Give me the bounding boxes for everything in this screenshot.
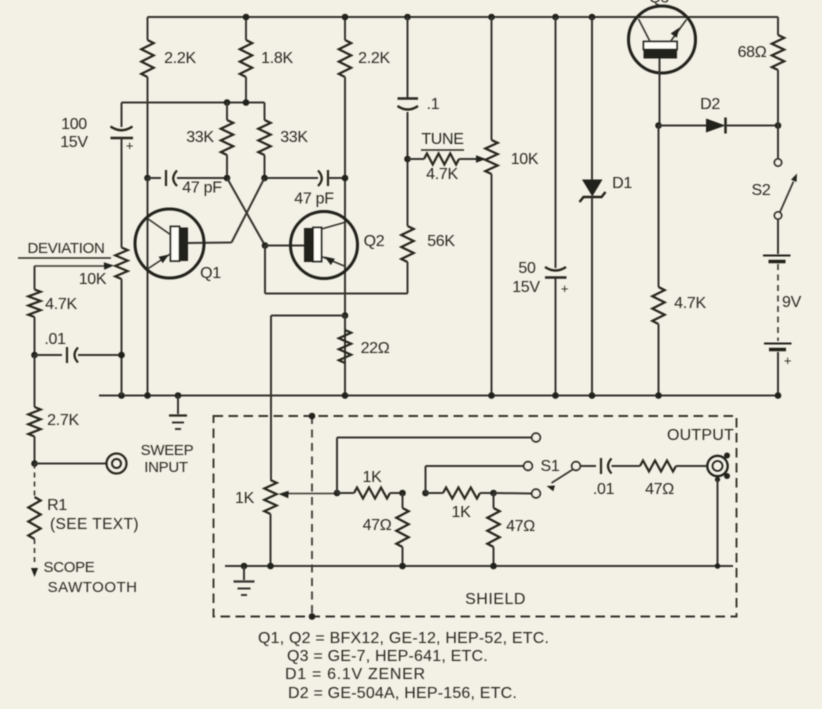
node attenuator tap B <box>399 490 406 497</box>
resistor 47Ω output <box>640 461 707 499</box>
svg-text:TUNE: TUNE <box>421 131 463 148</box>
svg-text:4.7K: 4.7K <box>674 295 706 312</box>
svg-text:.1: .1 <box>427 96 440 113</box>
resistor 22Ω <box>339 316 390 396</box>
svg-text:INPUT: INPUT <box>144 459 188 476</box>
node rail junction 10K pot <box>488 14 495 21</box>
resistor 47Ω first <box>363 493 409 566</box>
resistor 4.7K right <box>652 126 706 396</box>
svg-text:D2 = GE-504A, HEP-156, ETC.: D2 = GE-504A, HEP-156, ETC. <box>288 685 517 702</box>
node TUNE junction <box>404 156 411 163</box>
svg-text:2.2K: 2.2K <box>358 50 390 67</box>
resistor 56K <box>401 112 455 262</box>
node rail junction 1.8K <box>243 14 250 21</box>
terminal S1 contact 1 <box>532 433 541 442</box>
svg-text:DEVIATION: DEVIATION <box>27 240 104 257</box>
svg-text:10K: 10K <box>79 271 107 288</box>
label DEVIATION <box>18 240 111 258</box>
svg-text:68Ω: 68Ω <box>738 44 767 61</box>
node shield gnd 47Ω-1 <box>399 563 406 570</box>
ground main <box>169 396 187 430</box>
node 47pF-right / Q2 collector <box>342 175 349 182</box>
node bus junction ground stub <box>175 392 182 399</box>
wire S1 throw-1 <box>337 438 532 494</box>
resistor 4.7K TUNE <box>408 154 487 184</box>
svg-text:9V: 9V <box>782 294 802 311</box>
svg-text:47 pF: 47 pF <box>294 191 334 208</box>
node 33K-right bottom <box>261 175 268 182</box>
svg-text:SHIELD: SHIELD <box>465 591 526 608</box>
transistor Q2 <box>291 212 385 279</box>
node rail junction 2.2K right <box>342 14 349 21</box>
node shield gnd output <box>715 563 721 569</box>
capacitor 47pF left <box>148 170 228 197</box>
wire cross-couple to Q1 base <box>188 178 265 243</box>
svg-text:+: + <box>126 138 133 153</box>
svg-text:56K: 56K <box>427 233 455 250</box>
node rail junction 50uF <box>552 14 559 21</box>
resistor 33K right <box>258 103 308 179</box>
svg-text:47Ω: 47Ω <box>645 481 674 498</box>
resistor R1 (SEE TEXT) <box>28 464 139 578</box>
wire S1 throw-2 <box>426 466 524 493</box>
node attenuator tap D <box>490 490 497 497</box>
resistor 2.2K right <box>339 17 391 77</box>
svg-text:2.7K: 2.7K <box>47 412 79 429</box>
resistor 4.7K left <box>28 290 77 356</box>
node rail junction D1 <box>589 14 596 21</box>
resistor 1.8K <box>240 17 294 103</box>
node bus junction 10K pot <box>488 392 495 399</box>
svg-text:15V: 15V <box>60 134 88 151</box>
label SCOPE SAWTOOTH <box>43 559 137 596</box>
wire Q2 collector column <box>344 77 346 396</box>
wire bias row <box>122 102 265 104</box>
diode D2 <box>659 96 779 134</box>
svg-text:D2: D2 <box>700 96 720 113</box>
capacitor .01 left <box>35 331 122 363</box>
node shield gnd 47Ω-2 <box>490 563 497 570</box>
wire Q1 collector-emitter column <box>147 178 149 396</box>
label SHIELD <box>465 591 526 608</box>
node shield gnd 1K pot <box>267 563 274 570</box>
svg-text:R1: R1 <box>47 497 67 514</box>
svg-text:S1: S1 <box>541 458 560 475</box>
node .01 junction left <box>31 352 38 359</box>
node 33K-left bottom <box>224 175 231 182</box>
node attenuator tap C <box>422 490 429 497</box>
svg-text:33K: 33K <box>186 129 214 146</box>
resistor 47Ω second <box>487 493 535 566</box>
switch S2 <box>752 126 797 220</box>
ground shield <box>234 566 255 595</box>
node Q2 emitter junction <box>342 312 349 319</box>
shield partition <box>309 413 316 620</box>
capacitor 47pF right <box>265 170 346 208</box>
node junction 47pF-left / 2.2K <box>144 175 151 182</box>
wire shield ground line <box>225 565 718 567</box>
wire top supply rail <box>148 16 779 18</box>
node 1.8K bottom <box>243 99 250 106</box>
potentiometer 1K shield <box>235 480 337 566</box>
svg-text:50: 50 <box>518 260 536 277</box>
potentiometer 10K <box>485 17 539 396</box>
resistor 33K left <box>186 103 233 179</box>
svg-text:100: 100 <box>61 116 87 133</box>
svg-text:1.8K: 1.8K <box>261 50 293 67</box>
svg-text:Q1, Q2 = BFX12, GE-12, HEP-52,: Q1, Q2 = BFX12, GE-12, HEP-52, ETC. <box>258 630 549 647</box>
resistor 2.2K left (R 2.2K) <box>141 17 196 178</box>
label parts list line 4 <box>288 685 517 702</box>
node Q3 base / D2 anode <box>655 122 662 129</box>
node bus junction 50uF <box>552 392 559 399</box>
node bus junction D1 <box>589 392 596 399</box>
svg-text:D1 = 6.1V ZENER: D1 = 6.1V ZENER <box>285 666 426 683</box>
node .01 junction right <box>118 352 125 359</box>
svg-text:4.7K: 4.7K <box>45 296 77 313</box>
wire cross-couple to Q2 base <box>227 178 265 246</box>
svg-text:SWEEP: SWEEP <box>141 442 194 459</box>
svg-text:+: + <box>784 353 791 368</box>
wire Q2 base to 56K <box>265 246 408 294</box>
svg-text:47 pF: 47 pF <box>182 180 222 197</box>
svg-text:33K: 33K <box>280 129 308 146</box>
wire Q2 base lead <box>265 245 304 247</box>
potentiometer 10K DEVIATION <box>35 248 128 396</box>
connector OUTPUT <box>667 427 734 482</box>
label TUNE <box>421 131 464 150</box>
wire ground bus <box>99 395 778 397</box>
svg-text:2.2K: 2.2K <box>164 50 196 67</box>
svg-text:OUTPUT: OUTPUT <box>667 427 734 444</box>
battery 9V <box>763 219 802 396</box>
resistor 1K second <box>426 488 494 522</box>
svg-text:.01: .01 <box>593 481 615 498</box>
svg-text:S2: S2 <box>752 182 771 199</box>
svg-text:22Ω: 22Ω <box>361 340 390 357</box>
wire OUTPUT ground drop <box>718 480 734 567</box>
capacitor 100uF 15V <box>60 103 133 248</box>
svg-text:1K: 1K <box>452 504 472 521</box>
svg-text:SCOPE: SCOPE <box>43 559 94 576</box>
capacitor .01 output <box>581 458 641 498</box>
label parts list line 2 <box>287 648 488 665</box>
svg-text:SAWTOOTH: SAWTOOTH <box>48 579 138 596</box>
svg-text:Q2: Q2 <box>364 233 385 250</box>
node shield gnd symbol <box>241 563 248 570</box>
transistor Q3 <box>629 0 696 126</box>
wire S1 throw-3 <box>494 492 532 495</box>
svg-text:.01: .01 <box>44 331 66 348</box>
svg-text:+: + <box>561 281 568 296</box>
node D2 cathode / 68Ω bottom <box>775 122 782 129</box>
svg-text:10K: 10K <box>511 151 539 168</box>
node bus junction battery <box>775 392 782 399</box>
resistor 1K first <box>337 469 403 499</box>
svg-text:15V: 15V <box>512 279 540 296</box>
wire deviation wiper drop <box>34 266 36 290</box>
node attenuator tap A <box>334 490 341 497</box>
node rail junction .1 cap <box>404 14 411 21</box>
transistor Q1 <box>135 209 221 282</box>
svg-text:47Ω: 47Ω <box>506 518 535 535</box>
node bus junction deviation pot <box>118 392 125 399</box>
shield enclosure box <box>214 416 737 617</box>
svg-text:Q3 = GE-7, HEP-641, ETC.: Q3 = GE-7, HEP-641, ETC. <box>287 648 488 665</box>
resistor 2.7K <box>28 355 79 464</box>
svg-text:1K: 1K <box>235 490 255 507</box>
wire emitter node to shield 1K pot <box>271 316 345 481</box>
switch S1 <box>541 458 581 491</box>
svg-text:1K: 1K <box>363 469 383 486</box>
node bus junction 22Ω <box>342 392 349 399</box>
capacitor .1 <box>398 17 440 113</box>
resistor 68Ω <box>738 17 785 126</box>
label parts list line 1 <box>258 630 549 647</box>
node bus junction 4.7K <box>655 392 662 399</box>
node sweep input junction <box>31 460 38 467</box>
svg-text:47Ω: 47Ω <box>363 517 392 534</box>
zener diode D1 <box>580 17 633 396</box>
terminal S1 contact 2 <box>524 462 533 471</box>
node Q2 base <box>262 242 269 249</box>
capacitor 50uF 15V <box>512 17 568 396</box>
node 33K-left top <box>224 99 231 106</box>
svg-text:4.7K: 4.7K <box>426 166 458 183</box>
svg-text:Q1: Q1 <box>200 265 221 282</box>
node bus junction Q1 emitter <box>144 392 151 399</box>
svg-text:D1: D1 <box>612 175 632 192</box>
terminal S1 contact 3 <box>532 489 541 498</box>
svg-text:(SEE TEXT): (SEE TEXT) <box>50 516 139 533</box>
connector SWEEP INPUT <box>35 442 194 476</box>
label parts list line 3 <box>285 666 426 683</box>
